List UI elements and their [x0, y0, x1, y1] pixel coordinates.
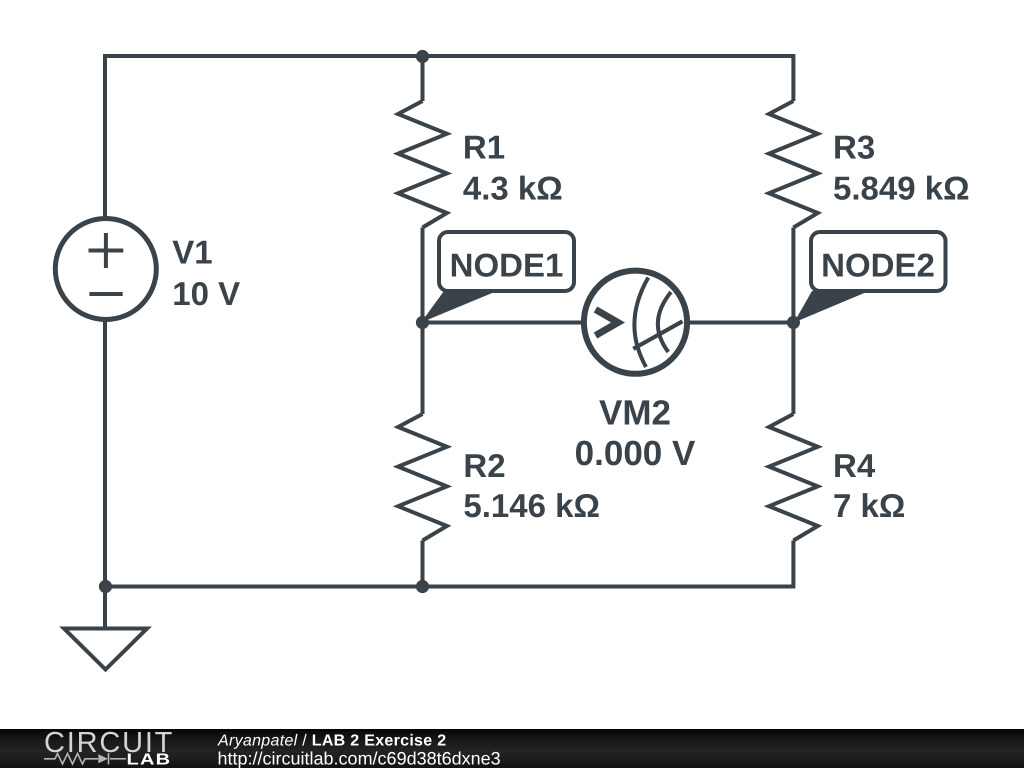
svg-text:NODE1: NODE1	[450, 247, 564, 284]
svg-text:LAB: LAB	[127, 751, 172, 768]
voltmeter VM2	[584, 271, 687, 374]
svg-text:0.000 V: 0.000 V	[575, 434, 696, 473]
svg-text:4.3 kΩ: 4.3 kΩ	[463, 170, 563, 207]
resistor R3	[769, 101, 818, 228]
wire middle branch lower	[421, 541, 425, 587]
wire bottom rail with corners	[105, 319, 793, 587]
wire top rail with corners	[105, 56, 793, 219]
svg-text:http://circuitlab.com/c69d38t6: http://circuitlab.com/c69d38t6dxne3	[218, 748, 501, 768]
node NODE1 flag	[439, 232, 574, 291]
svg-text:R4: R4	[833, 447, 876, 484]
resistor R1	[398, 101, 447, 228]
wire meter horizontal	[423, 321, 794, 325]
wire ground stem	[103, 587, 107, 629]
ground	[64, 629, 147, 670]
node NODE2 flag pointer	[794, 291, 869, 323]
svg-text:R1: R1	[463, 128, 505, 165]
svg-text:R2: R2	[463, 447, 505, 484]
voltage source V1	[55, 219, 156, 320]
svg-text:7 kΩ: 7 kΩ	[833, 487, 905, 524]
svg-text:5.849 kΩ: 5.849 kΩ	[833, 170, 970, 207]
svg-text:5.146 kΩ: 5.146 kΩ	[463, 487, 600, 524]
node NODE2 junction	[787, 316, 800, 329]
wire middle branch mid	[421, 228, 425, 415]
svg-text:VM2: VM2	[599, 394, 671, 433]
svg-text:R3: R3	[833, 128, 875, 165]
node ground junction	[99, 580, 112, 593]
svg-text:Aryanpatel / LAB 2 Exercise 2: Aryanpatel / LAB 2 Exercise 2	[217, 733, 446, 750]
node bottom middle junction	[416, 580, 429, 593]
node NODE1 flag pointer	[421, 291, 497, 323]
node A (junction top)	[416, 50, 429, 63]
resistor R4	[769, 414, 818, 541]
node NODE2 flag	[811, 232, 946, 291]
svg-text:V1: V1	[172, 234, 212, 271]
wire right branch mid	[791, 228, 795, 415]
logo resistor-diode squiggle	[44, 753, 126, 765]
svg-text:10 V: 10 V	[172, 275, 240, 312]
node NODE1 junction	[416, 316, 429, 329]
wire middle branch upper	[421, 56, 425, 101]
resistor R2	[398, 414, 447, 541]
svg-text:NODE2: NODE2	[821, 247, 935, 284]
